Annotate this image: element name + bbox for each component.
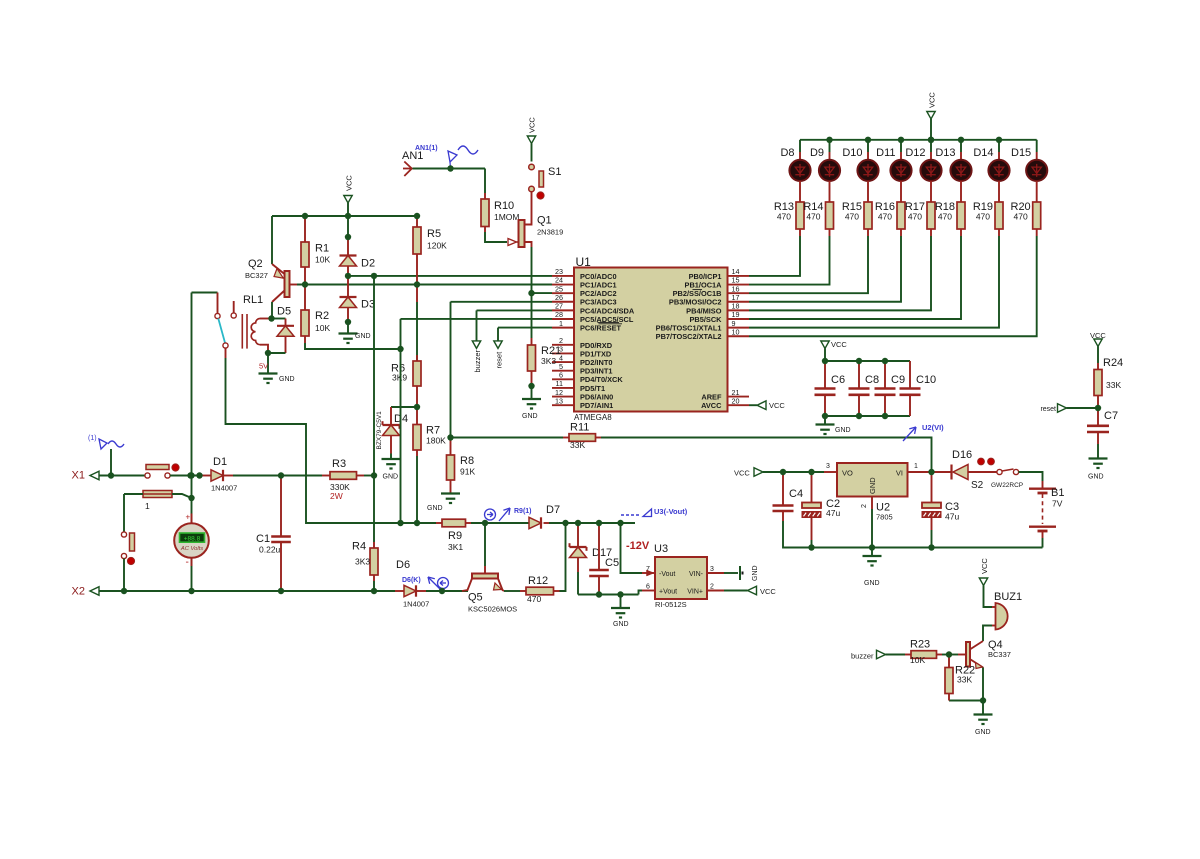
svg-text:+88.8: +88.8 xyxy=(184,536,201,543)
svg-text:470: 470 xyxy=(806,212,820,222)
svg-text:R12: R12 xyxy=(528,575,548,587)
svg-text:S1: S1 xyxy=(548,166,561,178)
svg-text:VCC: VCC xyxy=(769,401,785,410)
svg-text:B1: B1 xyxy=(1051,487,1064,499)
svg-text:33K: 33K xyxy=(957,675,972,685)
svg-text:D6(K): D6(K) xyxy=(402,577,421,584)
svg-text:D15: D15 xyxy=(1011,147,1031,159)
svg-text:R3: R3 xyxy=(332,458,346,470)
svg-text:1N4007: 1N4007 xyxy=(211,484,237,493)
svg-text:1MOM: 1MOM xyxy=(494,212,520,222)
svg-text:2: 2 xyxy=(861,504,868,508)
svg-text:U3: U3 xyxy=(654,543,668,555)
svg-text:buzzer: buzzer xyxy=(473,349,482,372)
svg-text:33K: 33K xyxy=(570,440,585,450)
svg-text:reset: reset xyxy=(495,351,504,369)
svg-text:7805: 7805 xyxy=(876,513,893,522)
svg-text:AVCC: AVCC xyxy=(701,401,722,410)
svg-text:91K: 91K xyxy=(460,467,475,477)
svg-text:GND: GND xyxy=(427,505,443,512)
svg-text:reset: reset xyxy=(1040,406,1056,413)
svg-text:GND: GND xyxy=(864,580,880,587)
svg-text:D1: D1 xyxy=(213,456,227,468)
svg-text:AN1(1): AN1(1) xyxy=(415,145,438,152)
svg-text:C9: C9 xyxy=(891,374,905,386)
svg-text:20: 20 xyxy=(732,396,740,405)
svg-text:X2: X2 xyxy=(72,586,85,598)
svg-text:D11: D11 xyxy=(876,147,895,159)
svg-text:470: 470 xyxy=(777,212,791,222)
svg-text:(1): (1) xyxy=(88,435,97,442)
svg-text:470: 470 xyxy=(1014,212,1028,222)
svg-text:R8: R8 xyxy=(460,455,474,467)
svg-text:VCC: VCC xyxy=(345,175,354,191)
svg-text:X1: X1 xyxy=(72,470,85,482)
svg-text:470: 470 xyxy=(908,212,922,222)
svg-text:2: 2 xyxy=(710,584,714,591)
svg-text:GND: GND xyxy=(752,565,759,581)
svg-text:7V: 7V xyxy=(1052,499,1063,509)
svg-text:U2(VI): U2(VI) xyxy=(922,423,944,432)
svg-text:3K1: 3K1 xyxy=(448,542,463,552)
svg-text:6: 6 xyxy=(646,584,650,591)
svg-text:GND: GND xyxy=(355,333,371,340)
svg-text:VCC: VCC xyxy=(980,558,989,574)
svg-text:+: + xyxy=(186,513,191,522)
svg-text:2W: 2W xyxy=(330,491,343,501)
svg-text:10K: 10K xyxy=(910,655,925,665)
svg-text:R4: R4 xyxy=(352,541,366,553)
svg-text:1: 1 xyxy=(914,463,918,470)
svg-text:470: 470 xyxy=(878,212,892,222)
svg-text:PD7/AIN1: PD7/AIN1 xyxy=(580,401,613,410)
svg-text:-12V: -12V xyxy=(626,540,650,552)
svg-text:D16: D16 xyxy=(952,449,972,461)
svg-text:VCC: VCC xyxy=(734,469,750,478)
svg-text:buzzer: buzzer xyxy=(851,652,874,661)
svg-text:VIN+: VIN+ xyxy=(687,588,703,595)
svg-text:1N4007: 1N4007 xyxy=(403,600,429,609)
svg-text:10K: 10K xyxy=(315,255,330,265)
svg-text:R1: R1 xyxy=(315,243,329,255)
svg-text:Q5: Q5 xyxy=(468,592,483,604)
svg-text:R9(1): R9(1) xyxy=(514,508,532,515)
svg-text:BZX79-C5V1: BZX79-C5V1 xyxy=(376,411,383,450)
svg-text:R23: R23 xyxy=(910,639,930,651)
svg-text:13: 13 xyxy=(555,396,563,405)
svg-text:VCC: VCC xyxy=(831,340,847,349)
svg-text:D7: D7 xyxy=(546,504,560,516)
svg-text:RI-0512S: RI-0512S xyxy=(655,600,687,609)
svg-text:GW22RCP: GW22RCP xyxy=(991,482,1023,489)
svg-text:C8: C8 xyxy=(865,374,879,386)
svg-text:VI: VI xyxy=(896,469,903,478)
svg-text:GND: GND xyxy=(522,413,538,420)
svg-text:RL1: RL1 xyxy=(243,294,263,306)
svg-text:C4: C4 xyxy=(789,488,803,500)
svg-text:BC337: BC337 xyxy=(988,650,1011,659)
svg-text:Q2: Q2 xyxy=(248,258,263,270)
svg-text:180K: 180K xyxy=(426,436,446,446)
svg-text:47u: 47u xyxy=(945,512,959,522)
svg-text:D6: D6 xyxy=(396,559,410,571)
svg-text:VCC: VCC xyxy=(760,587,776,596)
svg-text:33K: 33K xyxy=(1106,380,1121,390)
svg-text:1: 1 xyxy=(559,319,563,328)
svg-text:GND: GND xyxy=(835,427,851,434)
svg-text:R2: R2 xyxy=(315,310,329,322)
svg-text:470: 470 xyxy=(938,212,952,222)
svg-text:C7: C7 xyxy=(1104,410,1118,422)
svg-text:470: 470 xyxy=(845,212,859,222)
svg-text:C1: C1 xyxy=(256,533,270,545)
svg-text:D2: D2 xyxy=(361,258,375,270)
svg-text:Q1: Q1 xyxy=(537,215,552,227)
svg-text:GND: GND xyxy=(383,474,399,481)
svg-text:470: 470 xyxy=(527,594,541,604)
svg-text:3K3: 3K3 xyxy=(541,356,556,366)
svg-text:10: 10 xyxy=(732,327,740,336)
svg-text:5V: 5V xyxy=(259,362,268,371)
svg-text:2N3819: 2N3819 xyxy=(537,228,563,237)
svg-text:R9: R9 xyxy=(448,530,462,542)
svg-text:D8: D8 xyxy=(780,147,794,159)
svg-text:C6: C6 xyxy=(831,374,845,386)
svg-text:-: - xyxy=(186,557,189,568)
svg-text:GND: GND xyxy=(279,376,295,383)
svg-text:AC Volts: AC Volts xyxy=(180,546,203,552)
svg-text:R24: R24 xyxy=(1103,357,1123,369)
svg-text:R10: R10 xyxy=(494,200,514,212)
svg-text:BC327: BC327 xyxy=(245,271,268,280)
svg-text:VCC: VCC xyxy=(928,92,937,108)
svg-text:R5: R5 xyxy=(427,228,441,240)
svg-text:GND: GND xyxy=(613,621,629,628)
svg-text:R11: R11 xyxy=(570,422,589,434)
svg-text:U3(-Vout): U3(-Vout) xyxy=(654,507,688,516)
svg-text:0.22u: 0.22u xyxy=(259,545,281,555)
svg-text:470: 470 xyxy=(976,212,990,222)
svg-text:VCC: VCC xyxy=(528,117,537,133)
svg-text:1: 1 xyxy=(145,501,150,511)
svg-text:PC6/RESET: PC6/RESET xyxy=(580,324,622,333)
svg-text:D10: D10 xyxy=(842,147,862,159)
svg-text:3: 3 xyxy=(826,463,830,470)
svg-text:D5: D5 xyxy=(277,306,291,318)
svg-text:PB7/TOSC2/XTAL2: PB7/TOSC2/XTAL2 xyxy=(656,332,722,341)
svg-text:VIN-: VIN- xyxy=(689,571,704,578)
svg-text:VO: VO xyxy=(842,469,853,478)
svg-text:D9: D9 xyxy=(810,147,824,159)
svg-text:C5: C5 xyxy=(605,557,619,569)
svg-text:10K: 10K xyxy=(315,323,330,333)
svg-text:KSC5026MOS: KSC5026MOS xyxy=(468,605,517,614)
svg-text:BUZ1: BUZ1 xyxy=(994,591,1022,603)
svg-text:3: 3 xyxy=(710,566,714,573)
svg-text:D3: D3 xyxy=(361,299,375,311)
svg-text:C10: C10 xyxy=(916,374,936,386)
svg-text:D13: D13 xyxy=(935,147,955,159)
svg-text:120K: 120K xyxy=(427,241,447,251)
svg-text:S2: S2 xyxy=(971,480,984,491)
svg-text:GND: GND xyxy=(975,729,991,736)
svg-text:D14: D14 xyxy=(973,147,993,159)
svg-text:GND: GND xyxy=(868,477,877,494)
svg-text:3K3: 3K3 xyxy=(355,557,370,567)
svg-text:D12: D12 xyxy=(905,147,925,159)
svg-text:U1: U1 xyxy=(576,255,592,269)
svg-text:+Vout: +Vout xyxy=(659,588,677,595)
svg-text:-Vout: -Vout xyxy=(659,571,675,578)
svg-text:GND: GND xyxy=(1088,474,1104,481)
svg-text:47u: 47u xyxy=(826,508,840,518)
